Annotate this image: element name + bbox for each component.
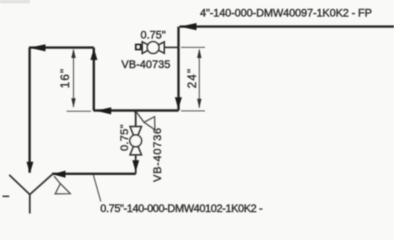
- flow arrow down below valve VB-40736: [132, 160, 139, 172]
- wire pipe far-left vertical: [28, 48, 30, 173]
- field weld flag at drop junction: [137, 112, 145, 122]
- lateral wye fitting: [9, 174, 52, 213]
- smudge top-left: [0, 0, 30, 3]
- svg-text:0.75": 0.75": [141, 29, 166, 41]
- wire pipe bottom middle horizontal: [93, 109, 178, 111]
- junction weld dot: [134, 110, 137, 113]
- flow arrow left on top pipe: [180, 23, 197, 30]
- valve VB-40736 body: [130, 127, 142, 155]
- wire valve drop from bottom pipe: [135, 111, 137, 128]
- wire pipe left-middle vertical: [93, 48, 95, 111]
- flow arrow left on bottom pipe: [96, 107, 111, 114]
- valve VB-40735 stub wire: [140, 46, 142, 48]
- flow arrow left on drain line: [52, 171, 65, 178]
- blind cap square on stub: [136, 45, 141, 50]
- svg-text:VB-40735: VB-40735: [121, 59, 170, 71]
- dimension extension line bottom right: [181, 110, 205, 112]
- flow arrow down at far-left pipe end: [27, 162, 34, 174]
- wire pipe right vertical: [177, 27, 179, 111]
- field weld flag at wye: [54, 176, 60, 184]
- svg-text:VB-40736: VB-40736: [152, 127, 164, 182]
- flow arrow left on top-left pipe: [29, 44, 45, 51]
- dimension extension line top right: [181, 46, 205, 48]
- continuation dash: [3, 195, 10, 197]
- wire pipe top-left horizontal: [29, 46, 94, 48]
- valve VB-40735 body: [142, 42, 164, 54]
- svg-text:0.75"-140-000-DMW40102-1K0K2 -: 0.75"-140-000-DMW40102-1K0K2 -: [100, 203, 263, 215]
- svg-text:0.75": 0.75": [119, 124, 131, 151]
- wire pipe top horizontal: [180, 25, 394, 27]
- wire below valve VB-40736: [135, 155, 137, 174]
- leader for bottom label: [93, 175, 100, 202]
- svg-text:16": 16": [60, 68, 72, 88]
- dimension line 24": [198, 50, 200, 108]
- svg-text:24": 24": [187, 68, 199, 88]
- dimension extension line bottom left: [67, 110, 92, 112]
- flow arrow up on left-middle vertical pipe: [90, 48, 97, 60]
- svg-text:4"-140-000-DMW40097-1K0K2 - FP: 4"-140-000-DMW40097-1K0K2 - FP: [200, 8, 372, 20]
- dimension line 16": [73, 50, 75, 107]
- flow arrow down on right vertical pipe: [175, 97, 182, 109]
- wire drain horizontal: [52, 173, 136, 175]
